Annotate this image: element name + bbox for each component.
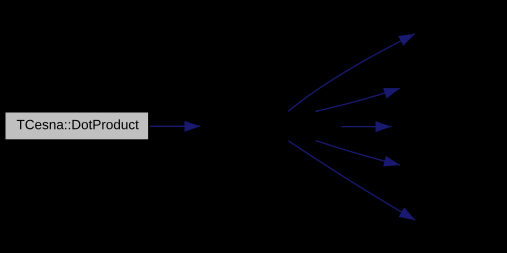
edge DotProduct to center node	[150, 125, 200, 127]
edge center to target 1 (top)	[288, 34, 415, 112]
node TCesna::DotProduct	[6, 113, 149, 140]
edge center to target 2	[315, 88, 400, 111]
edge center to target 3 (middle)	[341, 126, 391, 128]
edge center to target 4	[316, 141, 400, 166]
edge center to target 5 (bottom)	[289, 141, 416, 220]
